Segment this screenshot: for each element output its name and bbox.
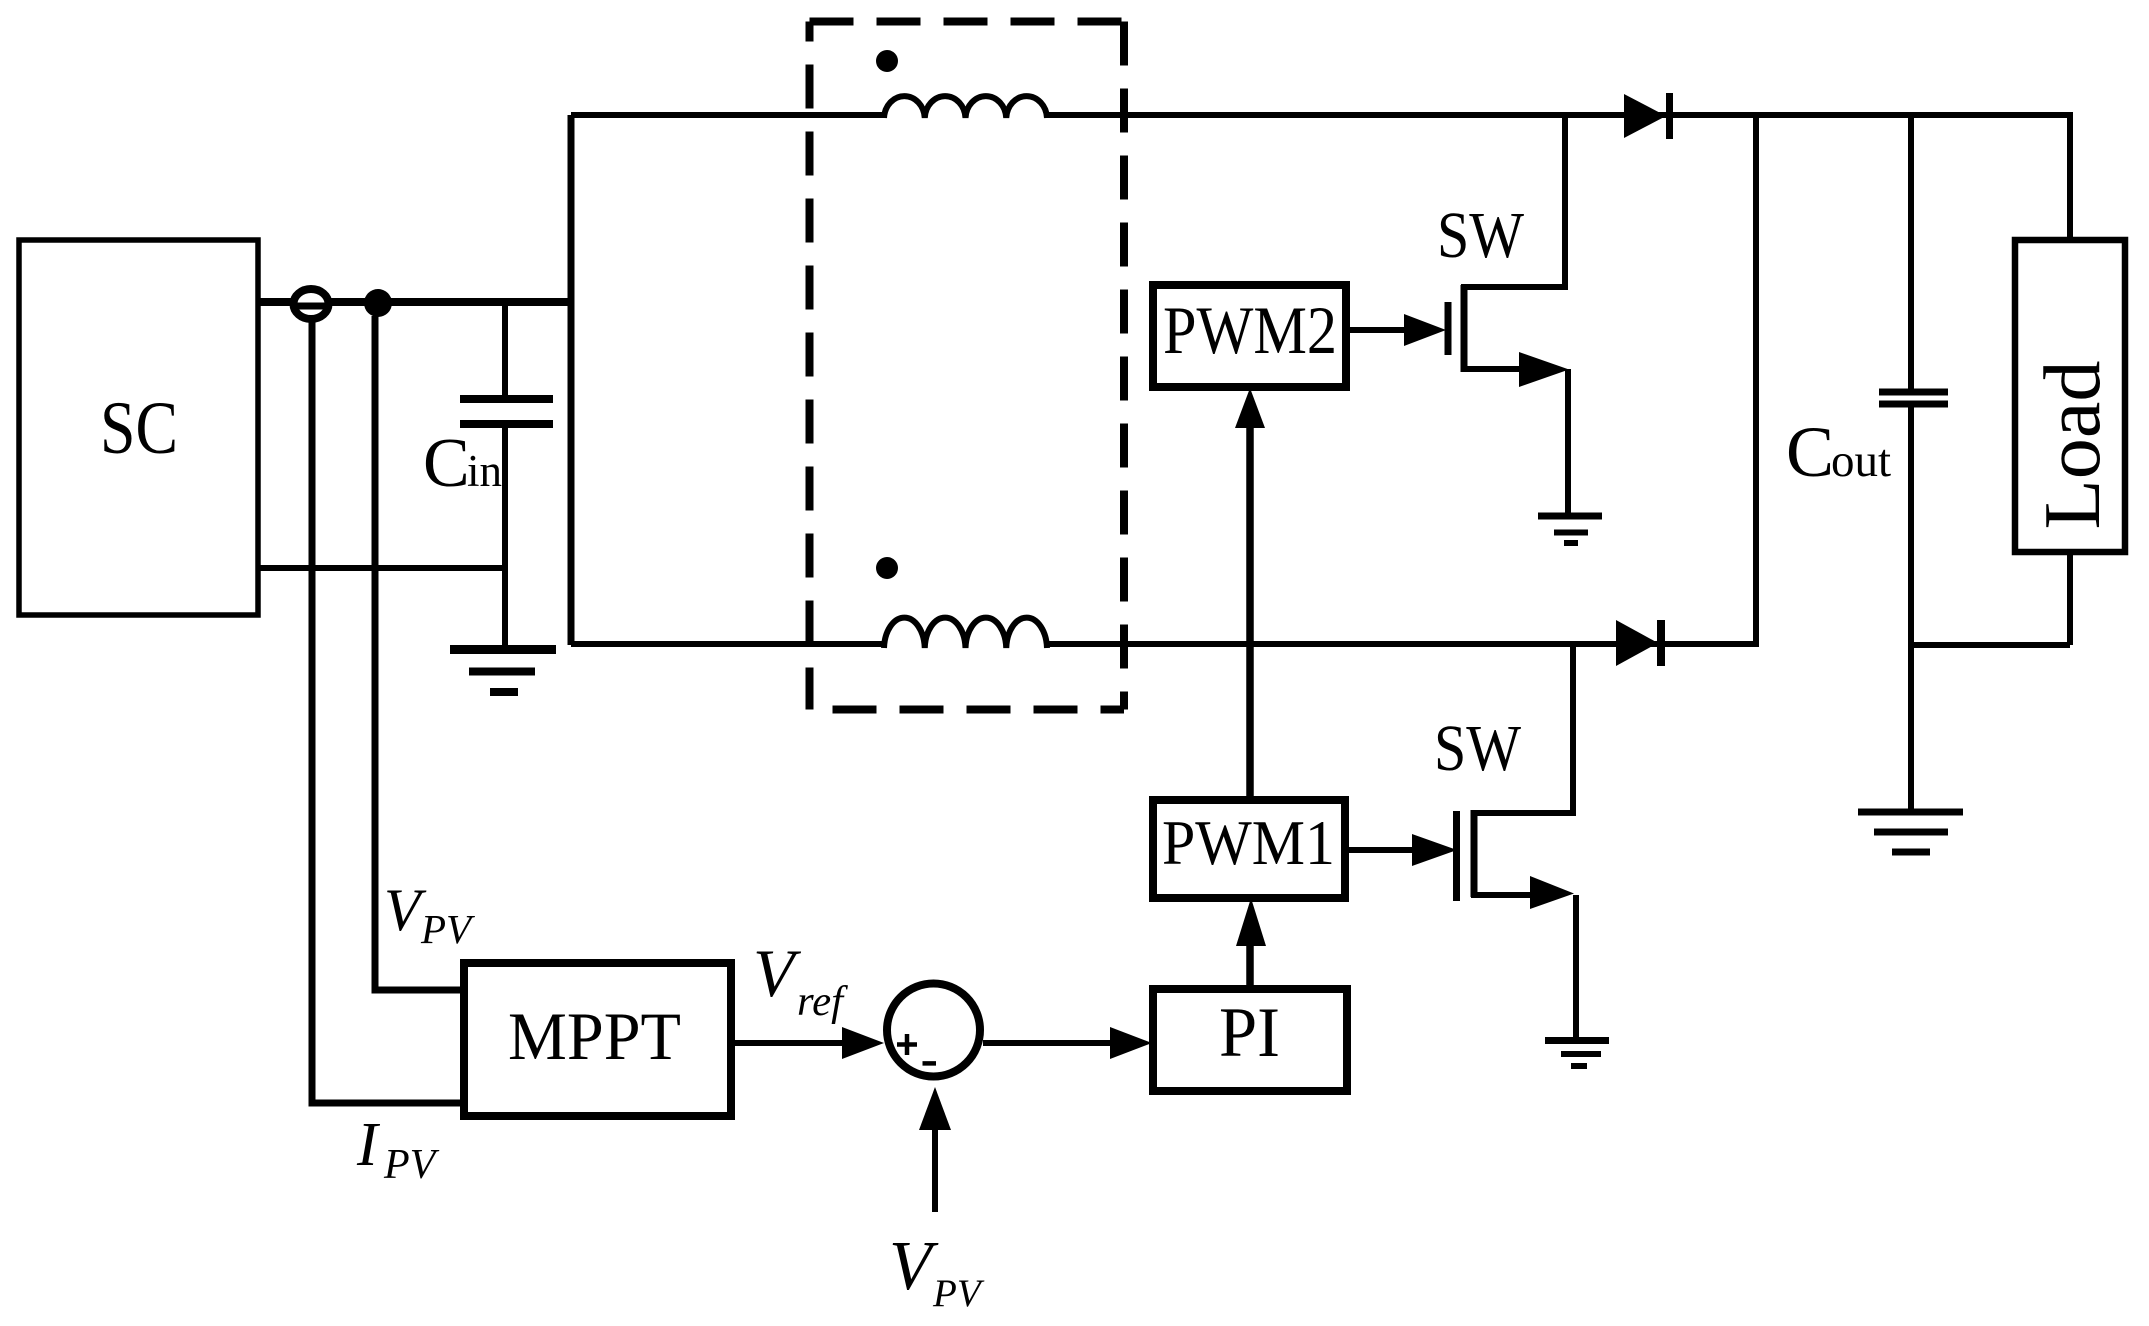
svg-text:V: V xyxy=(753,935,802,1011)
svg-text:ref: ref xyxy=(797,979,848,1025)
svg-text:I: I xyxy=(356,1111,381,1179)
svg-text:V: V xyxy=(889,1228,939,1305)
svg-text:PI: PI xyxy=(1219,994,1280,1072)
svg-text:PWM2: PWM2 xyxy=(1163,292,1337,368)
svg-text:SW: SW xyxy=(1437,199,1525,272)
svg-text:SC: SC xyxy=(100,387,178,470)
svg-text:out: out xyxy=(1831,435,1891,487)
svg-text:Load: Load xyxy=(2029,361,2117,530)
svg-text:in: in xyxy=(467,446,502,496)
svg-text:PV: PV xyxy=(420,906,475,952)
svg-text:PV: PV xyxy=(383,1142,440,1188)
svg-text:MPPT: MPPT xyxy=(508,998,681,1074)
svg-text:C: C xyxy=(1786,412,1834,492)
svg-text:SW: SW xyxy=(1434,712,1522,785)
svg-text:PV: PV xyxy=(932,1272,985,1315)
svg-text:PWM1: PWM1 xyxy=(1162,808,1335,878)
svg-text:C: C xyxy=(423,425,470,502)
